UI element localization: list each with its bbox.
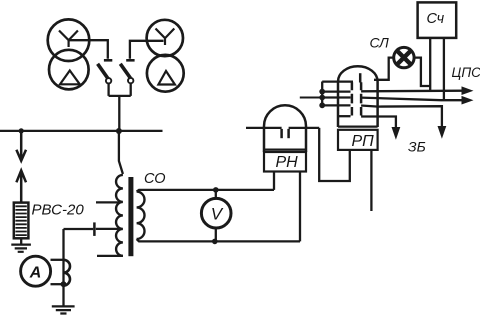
wire RN right electrode lead <box>289 127 320 129</box>
transformer T2 star circle <box>147 20 183 56</box>
svg-text:РВС-20: РВС-20 <box>32 202 85 219</box>
wire tap 2 from ammeter <box>64 228 94 230</box>
wire switch output bar <box>109 95 131 97</box>
T2 star (Y) symbol <box>156 29 175 46</box>
wire primary feed <box>119 131 123 174</box>
ammeter A <box>21 256 51 286</box>
node bus left <box>19 128 24 133</box>
switch S2 fixed contact tick <box>126 59 134 62</box>
tube RN walls <box>264 126 306 152</box>
tube RP label box <box>338 130 378 150</box>
svg-text:РП: РП <box>352 133 375 150</box>
wire S1 down <box>107 84 109 96</box>
wire RN right pin down <box>299 172 301 242</box>
wire grid input <box>300 97 322 99</box>
transformer CO primary winding <box>116 175 123 256</box>
wire grid row 4 left <box>338 115 351 117</box>
switch S1 blade <box>98 64 108 79</box>
RP electrode left (dashed) <box>351 82 354 115</box>
node grid 2 <box>319 95 325 101</box>
arrowhead ZB left <box>392 127 401 140</box>
svg-text:Сч: Сч <box>427 11 445 27</box>
svg-text:ЦПС: ЦПС <box>452 65 480 80</box>
switch S1 fixed contact tick <box>104 59 112 62</box>
RP center electrode top <box>359 73 362 82</box>
wire grid row 2 left <box>322 96 350 98</box>
svg-text:СЛ: СЛ <box>370 35 390 51</box>
T1 star (Y) symbol <box>59 31 78 48</box>
wire T1 to switch S1 <box>70 40 108 59</box>
node grid 3 <box>319 102 325 108</box>
RP electrode right (dashed) <box>360 82 363 115</box>
tube RP dome <box>338 66 378 81</box>
wire RN left electrode lead <box>246 127 282 129</box>
RN right electrode <box>287 129 290 138</box>
wire lamp left lead <box>374 58 394 80</box>
wire secondary top <box>137 190 274 192</box>
tap contact bar <box>93 222 96 236</box>
switch S2 moving contact <box>128 78 133 83</box>
wire T2 to switch S2 <box>130 41 164 59</box>
wire Sch right pin <box>443 38 445 100</box>
wire tap 1 <box>96 201 120 203</box>
wire tap 2 to winding <box>96 228 120 230</box>
tube RN dome <box>264 105 306 126</box>
arrow down (to line) <box>16 131 26 161</box>
tube RN body bottom line <box>264 149 306 151</box>
arrow up (from line) <box>16 171 26 203</box>
arrowhead CPS 2 <box>462 96 474 105</box>
bus wire <box>0 130 163 132</box>
wire lamp right lead <box>414 58 431 86</box>
node bus center <box>116 128 122 134</box>
wire voltmeter stubs <box>215 190 217 242</box>
RP grid bus <box>321 82 323 106</box>
transformer T1 star circle <box>48 19 90 61</box>
arrester RVS-20 body <box>14 203 29 239</box>
node grid 1 <box>319 89 325 95</box>
switch S2 blade <box>120 64 130 78</box>
wire anode row to CPS arrow 1 <box>361 90 464 93</box>
ground (ammeter) <box>52 306 75 313</box>
counter box Sch <box>418 2 457 38</box>
wire Sch left pin <box>429 38 431 91</box>
CO core <box>128 177 133 256</box>
ground (arrester) <box>11 245 31 252</box>
node coil bottom <box>61 281 67 287</box>
voltmeter V <box>201 198 231 228</box>
wire row 3 to ZB right <box>361 106 442 129</box>
tube RP body bottom line <box>338 125 378 127</box>
wire grid row 3 left <box>322 104 350 106</box>
wire arrester to ground <box>20 238 22 244</box>
wire row 2 to CPS arrow 2 <box>361 98 464 101</box>
svg-text:V: V <box>211 205 224 224</box>
svg-text:СО: СО <box>144 171 166 187</box>
coil at ammeter <box>64 260 71 286</box>
wire grid row 1 left <box>322 90 350 92</box>
T1 delta symbol <box>60 71 80 85</box>
svg-text:РН: РН <box>276 154 299 171</box>
tube RP walls <box>338 82 378 128</box>
arrester RVS-20 stripes <box>15 206 26 235</box>
wire secondary bottom <box>137 239 300 241</box>
transformer T2 delta circle <box>147 55 184 92</box>
lamp SL cross <box>397 51 410 64</box>
wire stem to bus <box>118 96 120 131</box>
svg-text:ЗБ: ЗБ <box>408 139 426 155</box>
node voltmeter bottom <box>212 239 218 245</box>
lamp SL <box>394 47 414 67</box>
wire RP right pin hanging <box>370 150 372 211</box>
wire RN left pin down <box>273 172 275 190</box>
wire primary bottom lead <box>97 255 123 257</box>
wire S2 down <box>130 83 132 96</box>
T2 delta symbol <box>158 71 175 85</box>
wire row 4 to ZB left <box>361 117 396 130</box>
wire RN to RP cathode (U link) <box>319 128 350 181</box>
ammeter stub top <box>51 259 64 261</box>
svg-text:А: А <box>29 265 42 282</box>
arrowhead ZB right <box>438 126 447 139</box>
RN left electrode <box>280 129 283 138</box>
switch S1 moving contact <box>106 78 111 83</box>
tube RN label box <box>264 152 306 172</box>
arrowhead CPS 1 <box>462 86 474 95</box>
wire coil to ground <box>62 285 64 306</box>
ammeter stub bottom <box>51 283 64 285</box>
transformer T1 delta circle <box>49 50 89 90</box>
wire tap2 down to ammeter coil <box>62 229 64 285</box>
wire grid row top <box>322 80 353 82</box>
node voltmeter top <box>213 187 219 193</box>
transformer CO secondary winding <box>137 192 145 239</box>
